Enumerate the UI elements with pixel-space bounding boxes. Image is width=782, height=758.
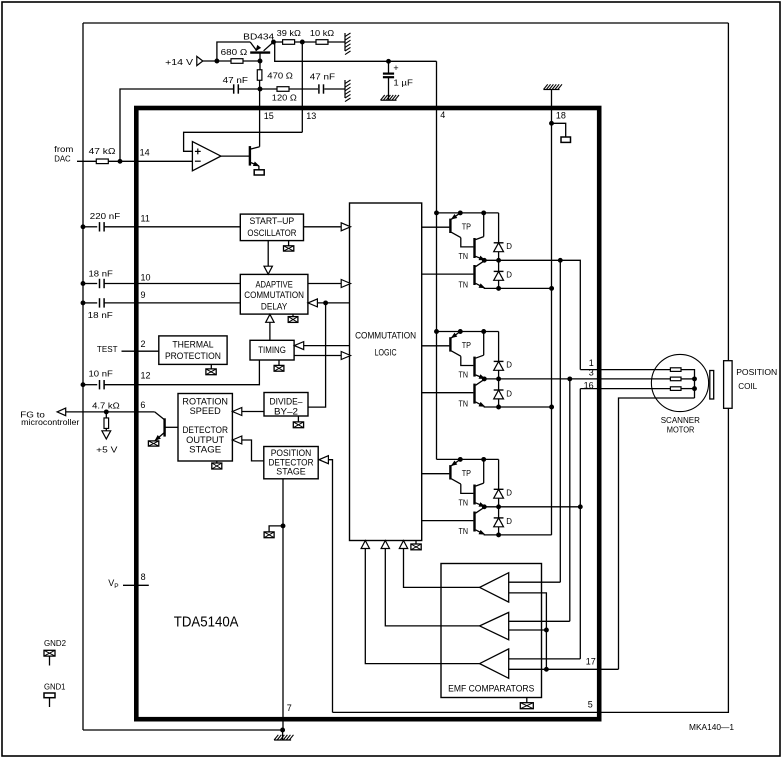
wire phase 2 / pin 3 to motor — [484, 378, 670, 380]
wire diode D3a lead — [498, 459, 500, 489]
arrow into logic from start-up — [341, 223, 350, 231]
svg-text:TN: TN — [459, 499, 469, 508]
svg-text:BD434: BD434 — [243, 31, 274, 41]
node pin 18 internal — [550, 121, 554, 125]
wire diode D1a lead — [498, 213, 500, 243]
label GND1 — [44, 681, 66, 691]
svg-text:15: 15 — [264, 111, 274, 121]
substrate symbol at Q3 emitter — [148, 441, 158, 446]
internal pad symbol at pin 18 — [561, 137, 571, 142]
wire motor coil2 right — [681, 378, 695, 380]
wire phase2 sense riser — [569, 379, 571, 621]
wire pin 6 FG — [66, 411, 155, 413]
svg-text:47 kΩ: 47 kΩ — [89, 146, 117, 156]
svg-text:PROTECTION: PROTECTION — [165, 351, 221, 361]
svg-text:SCANNER: SCANNER — [661, 415, 700, 425]
pin 15 number — [264, 111, 274, 121]
label SCANNER — [661, 415, 700, 425]
svg-text:5: 5 — [588, 700, 593, 710]
wire pin15 node to 120 ohm — [260, 88, 277, 90]
label TN1a — [459, 252, 469, 261]
svg-text:MOTOR: MOTOR — [667, 425, 695, 435]
resistor 10 kohm — [316, 40, 328, 45]
svg-text:OUTPUT: OUTPUT — [186, 435, 224, 445]
node adaptive/divide junction — [324, 301, 328, 305]
label VP — [108, 578, 118, 590]
svg-text:D: D — [506, 389, 512, 398]
node phase3 junction — [578, 505, 582, 509]
label D2b — [506, 389, 512, 398]
ground earth at pin 7 — [274, 735, 293, 740]
transistor TN1b (lower NPN) — [475, 261, 485, 289]
svg-text:TP: TP — [462, 223, 471, 232]
motor coil winding 1 — [670, 368, 681, 372]
svg-text:ROTATION: ROTATION — [182, 396, 228, 406]
wire position to rotation — [242, 440, 264, 461]
wire position stage to pin 7 — [282, 479, 284, 730]
svg-text:18 nF: 18 nF — [88, 310, 113, 320]
svg-text:120 Ω: 120 Ω — [272, 93, 298, 103]
svg-text:LOGIC: LOGIC — [375, 348, 397, 358]
svg-text:microcontroller: microcontroller — [21, 417, 79, 427]
comparator 1 triangle — [480, 573, 509, 602]
label 18 nF lower — [88, 310, 113, 320]
block start-up oscillator — [240, 214, 303, 241]
wire pin 12 left — [83, 384, 97, 386]
svg-text:EMF COMPARATORS: EMF COMPARATORS — [448, 683, 534, 693]
pin 10 number — [141, 273, 151, 283]
capacitor 10 nF — [100, 380, 105, 389]
wire BD434 base lead down to 470 ohm — [259, 61, 261, 70]
node D1 phase — [497, 258, 501, 262]
ground earth at 1uF — [381, 95, 399, 100]
wire GND1 stem — [49, 698, 51, 707]
block rotation speed detector output stage — [178, 394, 232, 462]
substrate symbol under divide — [293, 422, 303, 428]
wire bridge2 supply rail — [437, 331, 499, 333]
svg-text:7: 7 — [287, 703, 292, 713]
svg-text:13: 13 — [306, 111, 316, 121]
wire diode D2b lead — [498, 379, 500, 390]
wire diode D2b to bottom — [498, 399, 500, 407]
wire GND2 stem — [49, 656, 51, 665]
label TN3a — [459, 499, 469, 508]
label from — [54, 144, 73, 154]
node pin 15 top (260,89) — [258, 87, 262, 91]
svg-text:+5 V: +5 V — [96, 445, 118, 455]
arrow into adaptive from timing — [266, 314, 274, 322]
svg-text:10 nF: 10 nF — [89, 368, 113, 378]
wire +14V riser to BD434 emitter — [217, 42, 250, 61]
node pin 7 ground — [281, 728, 285, 732]
substrate symbol under thermal protection — [206, 369, 216, 375]
svg-text:GND2: GND2 — [44, 638, 66, 648]
wire start-up to adaptive stem — [267, 241, 269, 267]
wire TP2 collector to TN2a base — [461, 356, 474, 365]
pin 7 number — [287, 703, 292, 713]
svg-text:1: 1 — [589, 358, 594, 368]
wire pin 9 — [104, 302, 240, 304]
wire motor coil1 right — [681, 370, 695, 398]
block position detector stage — [264, 447, 318, 479]
svg-text:STAGE: STAGE — [276, 467, 305, 477]
svg-text:10 kΩ: 10 kΩ — [310, 28, 335, 38]
pin 13 number — [306, 111, 316, 121]
wire comp1 input lower / star — [509, 593, 547, 669]
wire adaptive input from divider node — [317, 302, 349, 304]
node ground bus pin 10 cap — [81, 282, 85, 286]
node D3b bottom — [497, 533, 501, 537]
wire TP3 collector to TN3a base — [461, 484, 474, 493]
wire phase1 sense riser — [559, 260, 561, 582]
wire bridge1 bottom emitter — [484, 287, 551, 290]
substrate symbol under rotation stage — [212, 463, 222, 469]
node bridge1 rail at VP — [435, 211, 439, 215]
transistor TN2a (upper NPN) — [475, 355, 485, 380]
wire pin 18 to internal pad — [552, 123, 566, 137]
node D3 phase — [497, 505, 501, 509]
wire motor coil3 right — [681, 388, 695, 390]
svg-text:4: 4 — [440, 110, 445, 120]
svg-text:THERMAL: THERMAL — [172, 340, 213, 350]
label TN2a — [459, 371, 469, 380]
diode D3a — [494, 489, 504, 498]
wire 47nF to pin15 node — [239, 88, 260, 90]
arrow into rotation lower — [232, 436, 241, 444]
node star comp2 — [544, 628, 548, 632]
svg-text:D: D — [506, 489, 512, 498]
wire position input from pin 5 riser — [328, 460, 332, 713]
svg-text:SPEED: SPEED — [190, 406, 221, 416]
svg-text:47 nF: 47 nF — [310, 72, 335, 82]
wire bowtie link position — [269, 526, 283, 532]
wire comp3 lower / pin 17 — [509, 668, 619, 670]
svg-text:14: 14 — [140, 148, 150, 158]
label D3b — [506, 517, 512, 526]
wire op-amp output to Q2 base — [221, 155, 249, 157]
svg-text:COMMUTATION: COMMUTATION — [355, 331, 416, 341]
wire pin 15 — [259, 89, 261, 147]
wire 4.7k lead — [105, 412, 107, 418]
pin 4 number — [440, 110, 445, 120]
wire collector to 39k — [274, 41, 284, 43]
svg-text:VP: VP — [108, 578, 118, 590]
wire divide bowtie stem — [297, 416, 299, 422]
label TP1 — [462, 223, 471, 232]
node phase2 sense — [568, 377, 572, 381]
node ground bus pin 11 cap — [81, 225, 85, 229]
label TEST — [97, 344, 118, 354]
node phase1 sense — [558, 258, 562, 262]
wire 10k to ground — [327, 41, 345, 43]
svg-text:TP: TP — [462, 469, 471, 478]
svg-text:4.7 kΩ: 4.7 kΩ — [92, 400, 120, 410]
node D2 phase — [497, 377, 501, 381]
wire TN1a collector — [483, 213, 485, 237]
label 39 kohm — [277, 28, 302, 38]
wire comp2 input lower — [509, 629, 547, 631]
resistor 4.7 kohm — [104, 418, 109, 429]
arrow into logic from comparator 3 — [361, 541, 369, 549]
wire TN2b base from logic — [422, 392, 474, 394]
svg-text:9: 9 — [141, 290, 146, 300]
transistor TP1 (PNP upper) — [450, 213, 460, 238]
label 220 nF — [90, 211, 120, 221]
wire 470 ohm to pin 15 node — [259, 80, 261, 89]
wire comparator 3 output to logic — [365, 549, 479, 664]
arrow into logic from comparator 2 — [381, 541, 389, 549]
wire diode D1b to bottom — [498, 280, 500, 288]
wire TP1 base from logic — [422, 226, 450, 228]
wire +14V to 680 ohm — [203, 60, 231, 62]
svg-text:6: 6 — [140, 400, 145, 410]
svg-text:POSITION: POSITION — [736, 367, 777, 377]
svg-text:10: 10 — [141, 273, 151, 283]
pin 6 number — [140, 400, 145, 410]
node motor star coil2 — [693, 377, 697, 381]
pin 9 number — [141, 290, 146, 300]
wire TN3a collector — [483, 459, 485, 483]
svg-text:DETECTOR: DETECTOR — [182, 425, 228, 435]
wire diode D3b lead — [498, 507, 500, 518]
arrow into logic from timing — [341, 352, 350, 360]
svg-text:from: from — [54, 144, 73, 154]
svg-text:TIMING: TIMING — [258, 345, 286, 355]
wire diode D1b lead — [498, 260, 500, 271]
svg-text:TDA5140A: TDA5140A — [174, 614, 239, 630]
node bridge2 phase — [482, 377, 486, 381]
wire diode D1a to phase — [498, 252, 500, 261]
label MKA140-1 — [689, 723, 735, 732]
svg-text:11: 11 — [141, 213, 150, 223]
svg-text:680 Ω: 680 Ω — [221, 47, 248, 57]
resistor 680 ohm — [231, 59, 243, 64]
substrate symbol under start-up osc — [284, 246, 294, 251]
wire bridge3 supply rail — [437, 458, 499, 460]
wire pin 10 — [104, 283, 240, 285]
label 120 ohm — [272, 93, 298, 103]
node bridge1 rail TN collector — [482, 211, 486, 215]
label + polarity 1uF — [393, 63, 398, 73]
pin 14 number — [140, 148, 150, 158]
svg-text:39 kΩ: 39 kΩ — [277, 28, 302, 38]
substrate symbol under logic — [411, 544, 421, 550]
wire timing bowtie stem — [278, 360, 280, 365]
pin 8 number — [141, 572, 146, 582]
wire timing to adaptive stem — [269, 322, 271, 340]
position coil — [724, 361, 733, 409]
motor coil winding 3 — [670, 387, 681, 391]
wire 120 ohm to 47nF right — [289, 88, 318, 90]
transistor TN3a (upper NPN) — [475, 483, 485, 508]
svg-text:STAGE: STAGE — [189, 445, 221, 455]
node 1uF junction — [387, 59, 391, 63]
wire TN3b base from logic — [422, 520, 474, 522]
wire position coil top lead — [727, 23, 729, 361]
diode D3b — [494, 518, 504, 527]
capacitor 18 nF lower — [100, 298, 105, 307]
wire from DAC — [77, 160, 97, 162]
wire junction down to divide-by-2 — [308, 303, 326, 407]
label COIL — [738, 381, 757, 391]
supply arrow +5 V — [102, 431, 111, 439]
label TP3 — [462, 469, 471, 478]
wire pin 18 rail — [551, 90, 553, 535]
wire timing to logic — [294, 355, 341, 357]
capacitor 220 nF — [100, 222, 105, 231]
label 1 uF — [393, 78, 413, 88]
label D1b — [506, 271, 512, 280]
node motor star coil3 — [693, 387, 697, 391]
node bridge2 rail TP emitter — [458, 330, 462, 334]
svg-text:D: D — [506, 271, 512, 280]
label 47 nF right — [310, 72, 335, 82]
wire logic bowtie stem — [415, 541, 417, 545]
capacitor 18 nF upper — [100, 279, 105, 288]
pin 3 number — [589, 368, 594, 378]
arrow into logic from comparator 1 — [399, 541, 407, 549]
diode D1b — [494, 271, 504, 280]
node D1b bottom — [497, 286, 501, 290]
pin 17 number — [586, 656, 596, 666]
node bridge3 phase — [482, 505, 486, 509]
node position/substrate/pin7 — [281, 524, 285, 528]
svg-text:TN: TN — [459, 371, 469, 380]
label +14 V supply — [165, 57, 193, 67]
ground earth at pin 18 — [544, 84, 562, 89]
svg-text:+14 V: +14 V — [165, 57, 193, 67]
svg-text:MKA140—1: MKA140—1 — [689, 723, 735, 732]
node ground bus pin 9 cap — [81, 301, 85, 305]
svg-text:D: D — [506, 242, 512, 251]
capacitor 1 uF (polarized) — [383, 61, 394, 99]
scanner motor circle — [651, 354, 708, 411]
wire start-up bowtie stem — [288, 241, 290, 246]
supply arrow +14 V — [197, 56, 203, 65]
wire pin16/phase3 riser — [579, 389, 581, 659]
svg-text:START–UP: START–UP — [250, 216, 295, 226]
resistor 39 kohm — [283, 40, 295, 45]
wire phase 3 — [484, 506, 580, 508]
wire TN1b base from logic — [422, 273, 474, 275]
comparator 3 triangle — [480, 649, 509, 678]
substrate symbol under timing — [274, 365, 284, 371]
comparator 2 triangle — [480, 612, 509, 639]
label POSITION — [736, 367, 777, 377]
svg-text:220 nF: 220 nF — [90, 211, 120, 221]
transistor Q3 FG output — [154, 412, 178, 441]
wire ground loop left bus — [82, 23, 84, 730]
svg-text:DAC: DAC — [54, 154, 70, 164]
label DAC — [54, 154, 70, 164]
transistor BD434 (PNP) — [250, 42, 273, 61]
block timing — [250, 340, 294, 360]
label microcontroller — [21, 417, 79, 427]
label TN1b — [459, 281, 469, 290]
transistor TN3b (lower NPN) — [475, 507, 485, 535]
wire position coil bottom lead to pin 5 — [333, 408, 729, 712]
label 18 nF upper — [89, 269, 113, 279]
svg-text:1 µF: 1 µF — [393, 78, 413, 88]
wire 680 ohm to BD434 base node — [243, 60, 260, 62]
svg-text:+: + — [393, 63, 398, 73]
svg-text:TEST: TEST — [97, 344, 118, 354]
node bridge2 bottom at rail18 — [550, 405, 554, 409]
wire TP3 base from logic — [422, 473, 450, 475]
wire collector riser to VP node — [274, 41, 275, 43]
wire pin 16 to motor — [580, 388, 670, 390]
motor coil winding 2 — [670, 377, 681, 381]
svg-text:18 nF: 18 nF — [89, 269, 113, 279]
wire pin 1 to motor — [580, 369, 670, 371]
transistor Q2 internal (drive BD434) — [250, 146, 260, 170]
label D2a — [506, 361, 512, 370]
svg-text:TP: TP — [462, 341, 471, 350]
node bridge3 rail TP emitter — [458, 457, 462, 461]
wire pin14 node riser to 47nF row — [120, 89, 233, 161]
wire diode D3a to phase — [498, 498, 500, 507]
svg-text:D: D — [506, 361, 512, 370]
wire collector down to pin4 row — [275, 42, 389, 61]
label BD434 — [243, 31, 274, 41]
op-amp U1 — [192, 142, 221, 171]
wire diode D2a lead — [498, 332, 500, 362]
label TN2b — [459, 399, 469, 408]
pin 12 number — [141, 370, 151, 380]
block divide-by-2 — [264, 393, 308, 417]
label 47 nF left — [223, 75, 248, 85]
svg-text:470 Ω: 470 Ω — [267, 70, 293, 80]
wire start-up osc to logic — [304, 226, 342, 228]
node BD434 base (260,61) — [258, 59, 262, 63]
diode D2a — [494, 361, 504, 370]
block adaptive commutation delay — [240, 274, 308, 314]
wire right 47nF to ground — [324, 88, 345, 90]
wire pin 17 riser to star — [619, 398, 695, 669]
node D2b bottom — [497, 405, 501, 409]
svg-text:TN: TN — [459, 252, 469, 261]
svg-text:TN: TN — [459, 527, 469, 536]
ground chassis at right 47nF — [345, 80, 351, 102]
wire VP rail from pin 4 — [436, 61, 438, 459]
arrow FG output — [57, 408, 66, 416]
capacitor 47 nF (left) — [234, 84, 239, 93]
wire ground loop bottom to pin 7 — [83, 729, 283, 731]
node bridge1 rail TP emitter — [458, 211, 462, 215]
wire TP2 base from logic — [422, 345, 450, 347]
svg-text:OSCILLATOR: OSCILLATOR — [247, 228, 296, 238]
label 10 nF — [89, 368, 113, 378]
wire TP1 collector to TN1a base — [461, 238, 474, 247]
node bridge3 rail TN collector — [482, 457, 486, 461]
wire pin7 gnd stem — [282, 730, 284, 740]
ground symbol GND2 — [44, 650, 55, 656]
node BD434 collector — [272, 40, 276, 44]
label 10 kohm — [310, 28, 335, 38]
substrate symbol under adaptive — [288, 317, 298, 323]
wire divide to rotation — [242, 411, 264, 413]
wire 47k to pin 14 — [108, 160, 192, 162]
label +5 V — [96, 445, 118, 455]
svg-text:ADAPTIVE: ADAPTIVE — [255, 279, 292, 289]
substrate symbol under EMF comparators — [520, 703, 533, 709]
wire adaptive to logic — [308, 283, 341, 285]
wire pin 9 left — [83, 302, 97, 304]
block thermal protection — [159, 336, 227, 365]
wire diode D3b to bottom — [498, 527, 500, 535]
capacitor 47 nF (right) — [319, 84, 324, 93]
label D3a — [506, 489, 512, 498]
